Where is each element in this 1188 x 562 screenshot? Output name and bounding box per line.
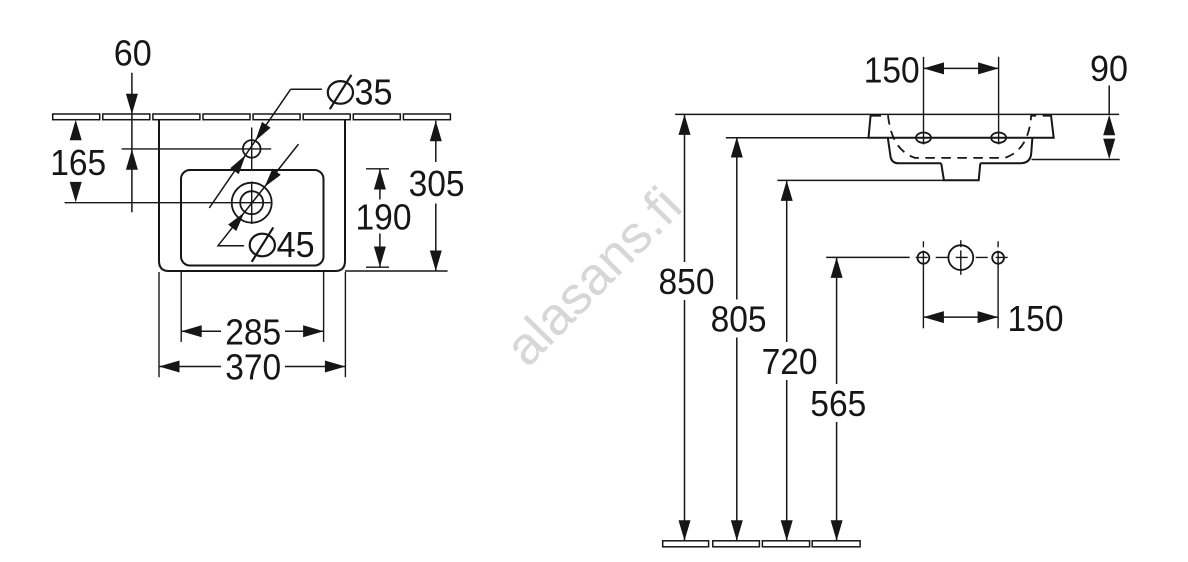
lower fixing hole right	[992, 252, 1004, 264]
basin inner bowl	[181, 170, 324, 266]
dim 805 arrow lower	[731, 520, 743, 541]
drain hole centerline dash	[960, 240, 962, 247]
dim 60 line	[131, 73, 133, 213]
dim 150 lower line	[923, 316, 998, 318]
dim 150 upper line	[924, 67, 999, 69]
dim 305 arrow upper	[430, 121, 442, 142]
leader arrow faucet lower	[230, 155, 245, 174]
dim 150 upper arrow left	[924, 62, 945, 74]
svg-text:850: 850	[659, 261, 715, 302]
svg-text:370: 370	[225, 347, 281, 388]
drain inner circle	[240, 191, 263, 214]
dim 370 line left	[159, 366, 221, 368]
drain trap block	[941, 163, 980, 180]
dim 285 line left	[181, 330, 221, 332]
lower hole left extension line	[922, 251, 924, 329]
dim 370 extension left	[158, 272, 160, 377]
dim 90 bottom extension line	[1032, 159, 1120, 161]
basin outer outline	[159, 120, 345, 271]
dim 150 upper extension right	[998, 57, 1000, 145]
drain hole centerline	[960, 250, 962, 274]
dim 60 arrow lower	[126, 149, 138, 170]
dim 805 line lower	[736, 338, 738, 541]
dim 190 line lower	[379, 234, 381, 268]
dim 190 extension top	[366, 168, 389, 170]
leader line faucet label diagonal	[209, 89, 290, 208]
svg-text:165: 165	[50, 142, 106, 183]
dim 150 lower arrow left	[923, 311, 944, 323]
dim 305 extension bottom	[345, 270, 448, 272]
dim 565 arrow lower	[831, 520, 843, 541]
dim 720 arrow upper	[781, 180, 793, 201]
dim 285 arrow left	[181, 325, 202, 337]
dim 190 extension bottom	[366, 266, 389, 268]
dim 370 arrow left	[159, 361, 180, 373]
lower hole right centerline dash	[997, 241, 999, 247]
dim 90 arrow lower	[1103, 139, 1115, 160]
dim 60 arrow upper	[126, 94, 138, 115]
faucet hole vertical centerline	[251, 128, 253, 172]
lower fixing hole left	[918, 252, 930, 264]
dim 370 arrow right	[325, 361, 346, 373]
faucet hole circle	[243, 140, 261, 158]
svg-text:45: 45	[277, 224, 315, 265]
dim 150 upper arrow right	[978, 62, 999, 74]
lower fixing hole left centerline	[922, 241, 924, 247]
svg-text:190: 190	[356, 197, 412, 238]
dim 370 line right	[285, 366, 345, 368]
dim 850 arrow upper	[679, 114, 691, 134]
dim 720 line upper	[786, 180, 788, 342]
svg-text:565: 565	[810, 383, 866, 424]
dim 190 arrow lower	[374, 247, 386, 268]
dim 565 arrow upper	[831, 257, 843, 278]
leader arrow drain upper	[265, 169, 281, 188]
720 level extension line	[777, 179, 943, 181]
dim 565 line upper	[836, 257, 838, 384]
dim 285 extension left	[180, 272, 182, 342]
svg-text:720: 720	[762, 341, 818, 382]
svg-text:150: 150	[864, 49, 920, 90]
dim 285 line right	[285, 330, 324, 332]
dim 720 line lower	[786, 380, 788, 541]
hidden bowl dashed outline	[872, 116, 1051, 158]
dim 370 extension right	[344, 272, 346, 377]
svg-text:150: 150	[1008, 298, 1064, 339]
wall tiles row	[53, 114, 100, 120]
dim 565 line lower	[836, 422, 838, 541]
svg-text:805: 805	[711, 299, 767, 340]
leader line drain diagonal with elbow	[218, 144, 299, 246]
drain vertical centerline	[251, 182, 253, 225]
fixing hole right	[991, 133, 1006, 143]
dim 285 arrow right	[303, 325, 324, 337]
565 level dashed centerline	[910, 256, 1013, 258]
svg-text:60: 60	[114, 32, 152, 73]
dim 285 extension right	[323, 272, 325, 342]
dim 90 line	[1108, 86, 1110, 115]
drain outer circle	[232, 183, 272, 223]
dim 165 arrow lower	[70, 182, 82, 203]
dim 850 line upper	[684, 114, 686, 262]
floor tiles	[663, 541, 709, 547]
drain hole circle	[948, 245, 973, 270]
svg-text:35: 35	[355, 71, 393, 112]
dim 850 arrow lower	[679, 520, 691, 541]
label diameter-45 symbol	[250, 227, 275, 261]
dim 720 arrow lower	[781, 520, 793, 541]
extension line through drain	[65, 202, 272, 204]
rim level extension line	[675, 113, 1119, 115]
dim 305 line lower	[435, 204, 437, 272]
svg-text:90: 90	[1090, 48, 1128, 89]
leader arrow faucet upper	[255, 122, 270, 141]
dim 165 arrow upper	[70, 120, 82, 141]
extension line through faucet hole	[122, 148, 272, 150]
dim 805 arrow upper	[731, 137, 743, 158]
dim 150 lower arrow right	[978, 311, 999, 323]
basin rim block	[869, 114, 1054, 137]
dim 190 line upper	[379, 169, 381, 200]
leader line faucet label horizontal	[291, 88, 322, 90]
dim 305 line upper	[435, 121, 437, 162]
dim 850 line lower	[684, 300, 686, 541]
dim 805 line upper	[736, 137, 738, 300]
565 level extension line	[826, 256, 910, 258]
dim 190 arrow upper	[374, 169, 386, 190]
dim 90 arrow upper	[1103, 115, 1115, 136]
dim 150 upper extension left	[923, 57, 925, 145]
lower hole right extension line	[997, 251, 999, 329]
basin body	[888, 138, 1033, 164]
fixing hole left	[916, 133, 931, 143]
leader arrow drain lower	[228, 213, 244, 232]
svg-text:305: 305	[409, 163, 465, 204]
label diameter-35 symbol	[328, 75, 353, 109]
805 level extension line	[726, 137, 869, 139]
dim 305 arrow lower	[430, 251, 442, 272]
